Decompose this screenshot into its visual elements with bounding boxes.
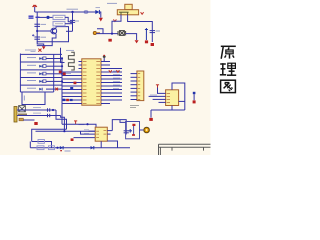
- ground symbol under bus: [42, 46, 46, 49]
- P1 row 5 label: [27, 87, 36, 89]
- power column stem: [193, 94, 195, 100]
- red mark bottom: [132, 134, 135, 136]
- wire: buzzer feed: [120, 120, 126, 123]
- wire: VCC stub: [34, 7, 36, 12]
- wire: ground stub: [23, 119, 34, 121]
- L1 foot text: [66, 72, 75, 74]
- capacitor C8 plates: [124, 131, 129, 133]
- P1 row 2 label: [27, 64, 36, 66]
- diode row 3: [39, 72, 46, 75]
- diode row 2: [39, 65, 46, 68]
- wire: left leg to X rail: [112, 19, 121, 33]
- wire: crystal lower net down: [61, 116, 65, 132]
- node junction: [111, 33, 113, 35]
- U3 pin2 label: [150, 94, 157, 96]
- C3 text: [75, 20, 79, 22]
- C2 polarity mark: [32, 34, 34, 36]
- power port column: [145, 28, 148, 40]
- power port ground: [145, 40, 148, 43]
- wire: Q1 collector loop: [37, 27, 69, 42]
- power flag on pin row: [109, 70, 112, 72]
- U3 pin4 wire: [159, 101, 166, 103]
- U3 pin name texts: [167, 93, 170, 102]
- net label text: [79, 124, 85, 126]
- wire: vertical from J1: [72, 12, 74, 31]
- wire: bus from P1 rows down: [61, 57, 63, 124]
- wire: U4 bottom to ladder: [100, 141, 102, 147]
- node row 4: [61, 80, 63, 82]
- node junction J1: [71, 11, 73, 13]
- diode D2 blob: [46, 16, 49, 19]
- red mark top: [132, 124, 135, 126]
- power flag at mid net left: [71, 138, 74, 141]
- power flag above P1: [38, 49, 41, 52]
- resistor R1 body: [53, 15, 65, 19]
- wire loop below P1: [22, 92, 45, 105]
- wire: U4 out to cap: [112, 120, 126, 135]
- wire: mid net rail: [36, 130, 98, 132]
- wire: U3 right pin to rail: [179, 100, 185, 102]
- wire row 4: [46, 80, 62, 82]
- wire row 3: [46, 73, 62, 75]
- node junction J2: [36, 30, 38, 32]
- U4 right pins: [107, 131, 112, 135]
- crystal X symbol: [19, 106, 26, 112]
- antenna symbol above U1: [103, 55, 106, 62]
- char 理: [220, 63, 236, 75]
- wire row 1: [46, 58, 62, 60]
- L1 label text: [66, 49, 74, 51]
- terminal dash: [97, 32, 100, 34]
- wire: base feed: [37, 30, 51, 32]
- wire: feed rail: [62, 124, 96, 127]
- node on feed rail: [86, 123, 88, 125]
- P1 right edge: [53, 54, 55, 92]
- power column right of U3: [193, 92, 196, 94]
- ground flag: [34, 122, 37, 125]
- resistor R3 body: [38, 140, 44, 144]
- U3 pin1 wire: [158, 88, 166, 94]
- R2 text: [55, 23, 63, 25]
- plus mark: [128, 129, 132, 133]
- wire row 2: [46, 65, 62, 67]
- diode row 5: [39, 88, 42, 91]
- wire: main top rail: [35, 11, 96, 13]
- gnd label text: [31, 51, 36, 53]
- ground flag under C4: [151, 43, 154, 46]
- wire: U3 top to right rail: [172, 83, 185, 110]
- node row 2: [61, 65, 63, 67]
- U3 pin2 wire: [149, 95, 166, 97]
- power flag at U1 pin: [74, 82, 77, 85]
- diode D3: [60, 146, 63, 149]
- wire: crystal upper: [17, 109, 56, 111]
- P1 row 3 label: [27, 72, 36, 74]
- diode D4: [91, 146, 94, 149]
- ground flag under D1: [99, 18, 103, 22]
- power flag near left leg: [113, 19, 116, 21]
- IC U3 body: [166, 90, 179, 106]
- net label PWR: [29, 16, 40, 18]
- power column ground: [193, 100, 196, 103]
- P1 designator text: [25, 49, 36, 51]
- electrolytic bar E1: [14, 107, 17, 123]
- ground flag under X rail: [108, 39, 111, 42]
- wire: crystal upper net down: [56, 110, 67, 129]
- net arrow 2 at U1 lower left: [70, 99, 73, 101]
- wire: X rail: [96, 33, 118, 35]
- C2 value text: [41, 36, 47, 38]
- MCU U1 body: [82, 59, 101, 105]
- resistor R2 body: [53, 22, 65, 26]
- J1 pins: [131, 74, 137, 100]
- connector J1 body: [137, 71, 144, 101]
- node: [56, 147, 58, 149]
- power flag T on rail: [74, 121, 77, 124]
- power flag at U1 lower left: [66, 99, 69, 101]
- LED pad terminal: [93, 31, 96, 34]
- U4 inner pin texts: [96, 131, 106, 138]
- wire: diode cathode down: [99, 12, 100, 18]
- P1 row 1 label: [27, 57, 36, 59]
- power flag VCC: [32, 5, 37, 7]
- P1 left edge: [19, 54, 21, 93]
- power flag above U3: [156, 85, 159, 88]
- D3 red tick: [60, 150, 62, 151]
- U1 right pins: [101, 62, 122, 104]
- regulator U2 tab: [125, 4, 132, 9]
- C4 text: [156, 30, 160, 32]
- inner stem: [133, 126, 135, 135]
- wire: U4 corner jog to rail: [107, 141, 117, 148]
- char 原: [221, 46, 236, 59]
- wire: net to U4 pin3: [74, 137, 96, 139]
- U3 pin3 wire: [153, 98, 166, 100]
- wire: crystal lower: [17, 115, 61, 117]
- wire: ladder top: [32, 129, 67, 141]
- net text on bottom rail: [65, 150, 71, 152]
- wire: ladder mid: [32, 142, 52, 148]
- wire: right leg to C4: [128, 15, 153, 42]
- capacitor C5 plates: [48, 108, 50, 111]
- net label texts on right pins: [113, 71, 120, 89]
- diode row 1: [39, 57, 46, 60]
- power flag right of U2: [141, 12, 144, 14]
- power flag on row 5: [55, 88, 58, 91]
- resistor R4 body: [37, 146, 44, 150]
- inductor L1 meander: [68, 52, 74, 70]
- wire: step link: [97, 29, 103, 34]
- sounder body dash: [19, 118, 23, 121]
- capacitor C2 plates: [34, 37, 40, 39]
- node: [52, 109, 54, 111]
- wire: upper branch: [37, 16, 46, 18]
- P1 divider nets: [20, 54, 62, 85]
- wire: stub left at bottom: [66, 30, 73, 32]
- J1 inner pin texts: [138, 74, 140, 100]
- wire row 5: [46, 88, 62, 90]
- power flag on pin row 2: [116, 70, 119, 72]
- IC U4 body: [95, 127, 107, 141]
- U2 pin legs: [119, 12, 129, 15]
- net arrow at U1 left: [70, 87, 73, 89]
- fuse F1 on top rail: [84, 11, 88, 14]
- U2 label text: [107, 2, 117, 4]
- P1 bottom edge: [20, 91, 53, 93]
- net label text above junction: [67, 8, 79, 10]
- J1 label text: [130, 106, 139, 108]
- wire: U3 bottom pin: [171, 106, 173, 111]
- wire: corner stub left of L1: [61, 48, 65, 63]
- U4 left pins: [89, 130, 96, 132]
- diode D1: [95, 10, 99, 14]
- wire: R2 right stub: [65, 23, 73, 25]
- net arrow at U1 lower left: [63, 99, 66, 101]
- U1 right pin name texts: [96, 62, 100, 104]
- U4 left pin texts: [84, 130, 89, 134]
- regulator U2 body: [117, 10, 138, 15]
- title block frame: [159, 144, 211, 155]
- wire: ladder left link: [29, 142, 31, 148]
- wire: [50, 16, 53, 18]
- diode row 4: [39, 80, 46, 83]
- node on mid net: [63, 130, 65, 132]
- char 图: [221, 80, 236, 92]
- donut hole: [146, 129, 148, 131]
- ground flag at rail end: [135, 40, 139, 43]
- capacitor C6 plates: [48, 114, 50, 117]
- C6 text: [33, 112, 41, 114]
- wire: left vertical bus: [37, 12, 44, 46]
- C5 text: [33, 107, 41, 109]
- wire: U3 bottom rail: [151, 109, 185, 111]
- sounder box: [126, 122, 140, 139]
- U1 left pin name texts: [83, 62, 87, 104]
- E1 label band lower: [18, 113, 27, 115]
- power dot on pin wire: [63, 73, 66, 76]
- transistor Q1: [51, 28, 57, 34]
- D1 label text: [96, 7, 101, 9]
- node row 1: [61, 57, 63, 59]
- crystal Y1: [118, 31, 126, 36]
- wire: branch to U4 pin2: [81, 131, 96, 134]
- capacitor C3 plates on J1 drop: [70, 20, 75, 22]
- capacitor C4 plates: [150, 31, 155, 33]
- wire: sounder stub: [140, 129, 144, 131]
- C1 value text: [41, 23, 47, 25]
- U1 left pins: [62, 62, 82, 104]
- sounder terminal donut: [144, 127, 149, 132]
- loop inner text: [23, 96, 25, 101]
- wire: ladder bottom rail: [30, 147, 130, 149]
- node row 3: [61, 73, 63, 75]
- P1 row 4 label: [27, 80, 36, 82]
- power flag left of L1 foot: [59, 71, 62, 74]
- wire: X rail right: [126, 34, 137, 40]
- R1 text: [55, 16, 63, 18]
- wire: Q1 emitter drop: [37, 34, 56, 46]
- wire: rail to ground: [150, 110, 152, 118]
- capacitor C1 plates: [34, 24, 40, 26]
- schematic sheet background: [0, 0, 211, 155]
- ground flag under U3 rail: [149, 118, 153, 121]
- resistor R5 body: [49, 146, 55, 150]
- wire: R1 to cap bus: [65, 17, 73, 21]
